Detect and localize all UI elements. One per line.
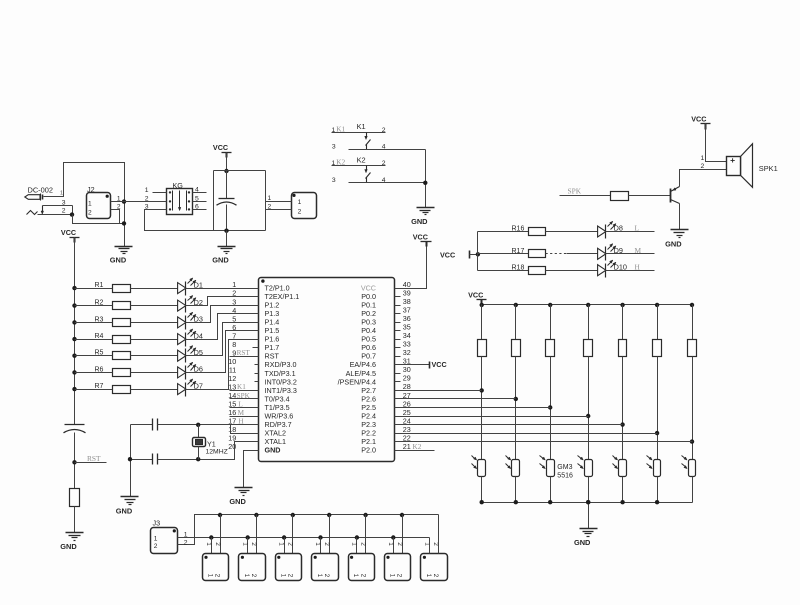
wire to ground <box>226 231 228 247</box>
wire U1 pin 17 net stub <box>230 424 259 426</box>
LED D5 <box>178 346 203 363</box>
wire SPK1 pin 2 to Q1 <box>680 170 727 187</box>
svg-text:GND: GND <box>60 542 77 551</box>
photoresistor LDR6 <box>647 456 661 477</box>
svg-text:37: 37 <box>403 305 411 314</box>
svg-text:1: 1 <box>389 574 396 578</box>
KG pin 4 stub <box>193 192 207 194</box>
svg-text:40: 40 <box>403 280 411 289</box>
wire rail to R18 <box>478 270 529 272</box>
junction top rail col2 <box>514 303 518 307</box>
wire left VCC rail <box>74 238 76 425</box>
wire U1 pin 27 to col2 <box>395 398 516 400</box>
wire U1 pin 14 net stub <box>230 398 259 400</box>
svg-text:1: 1 <box>88 200 92 207</box>
U1 left pin names <box>265 284 300 455</box>
resistor R6 <box>95 366 131 376</box>
junction K2 pin4 node <box>423 181 427 185</box>
junction rail node R3 <box>72 320 76 324</box>
transistor Q1 <box>671 187 680 204</box>
wire U1 pin 20 to ground <box>244 451 259 488</box>
wire U1 pin 29 stub <box>395 381 401 383</box>
svg-text:3: 3 <box>332 144 336 151</box>
svg-text:2: 2 <box>323 574 330 578</box>
junction cap bottom node <box>224 229 228 233</box>
wire rail A end corner <box>438 515 440 554</box>
svg-text:4: 4 <box>195 187 199 194</box>
junction rail A module1 <box>218 513 222 517</box>
wire K1/K2 common to ground <box>425 150 427 208</box>
photoresistor LDR7 <box>682 456 696 477</box>
junction rail B module3 <box>282 535 286 539</box>
junction rail node R5 <box>72 354 76 358</box>
svg-text:1: 1 <box>205 542 212 546</box>
wire U1 pin 11 stub <box>255 373 259 375</box>
wire rail to R5 <box>75 355 113 357</box>
power flag VCC left rail <box>61 228 80 242</box>
svg-text:24: 24 <box>403 416 411 425</box>
svg-text:2: 2 <box>701 163 705 170</box>
wire R4 to D4 <box>131 339 178 341</box>
capacitor C1 (polarized) <box>217 171 237 231</box>
net label SPK stub <box>560 187 611 196</box>
wire module4 pin1 <box>320 538 322 554</box>
resistor R8 (reset pulldown) <box>70 489 80 507</box>
svg-text:1: 1 <box>298 199 302 206</box>
module M2 (2-pin socket) <box>239 542 266 580</box>
wire rail to R1 <box>75 288 113 290</box>
ground under K1 K2 <box>411 208 434 227</box>
svg-text:20: 20 <box>228 442 236 451</box>
wire D2 to U1 pin 2 <box>186 297 259 306</box>
wire module4 pin2 <box>329 515 331 554</box>
resistor R9 (col1) <box>478 305 487 357</box>
svg-text:2: 2 <box>117 203 121 210</box>
junction col3 tap node <box>548 405 552 409</box>
U1 left pin numbers <box>228 280 236 451</box>
wire U1 pin 15 net stub <box>230 407 259 409</box>
wire U1 pin 39 stub <box>395 296 401 298</box>
wire module6 pin1 <box>393 538 395 554</box>
power flag VCC at U1 pin 40 <box>413 232 432 246</box>
junction bottom rail col6 <box>655 500 659 504</box>
svg-text:GND: GND <box>411 217 428 226</box>
svg-text:1: 1 <box>268 195 272 202</box>
pushbutton K2 <box>332 155 426 184</box>
junction col7 tap node <box>690 439 694 443</box>
svg-text:2: 2 <box>359 574 366 578</box>
svg-text:D7: D7 <box>194 381 203 390</box>
svg-text:1: 1 <box>184 532 188 539</box>
junction VCC rail node <box>224 169 228 173</box>
wire R17 to D9 <box>546 253 567 255</box>
junction rail A module4 <box>327 513 331 517</box>
wire U1 pin 31 to VCC flag <box>395 364 430 366</box>
wire U1 pin 36 stub <box>395 322 401 324</box>
svg-text:R16: R16 <box>512 226 525 233</box>
ground bottom left <box>60 533 83 552</box>
svg-text:RST: RST <box>237 349 251 357</box>
junction col4 tap node <box>586 414 590 418</box>
ground U1 pin 20 <box>229 488 252 507</box>
capacitor C2 (reset, polarized) <box>64 425 86 433</box>
svg-text:RST: RST <box>87 454 101 463</box>
wire module7 pin2 <box>438 515 440 554</box>
wire U1 pin 33 stub <box>395 347 401 349</box>
svg-text:2: 2 <box>214 574 221 578</box>
resistor R12 (col4) <box>584 305 593 357</box>
wire module2 pin2 <box>256 515 258 554</box>
svg-text:36: 36 <box>403 314 411 323</box>
wire rail to R16 <box>478 231 529 233</box>
resistor R19 (base) <box>611 192 629 201</box>
svg-text:1: 1 <box>387 542 394 546</box>
svg-text:2: 2 <box>214 542 221 546</box>
wire U1 pin 40 to VCC <box>395 242 427 289</box>
wire R7 to D7 <box>131 389 178 391</box>
wire rail to R3 <box>75 322 113 324</box>
junction bottom rail col4 <box>586 500 590 504</box>
module M5 (2-pin socket) <box>349 542 375 580</box>
resistor R16 <box>512 226 546 236</box>
KG pin 5 stub <box>193 201 207 203</box>
wire LDR6 to bottom rail <box>657 477 659 503</box>
LED D2 <box>178 295 203 312</box>
ground under Q1 <box>665 230 688 249</box>
ground array <box>574 529 598 548</box>
wire CON2 pin 1 <box>266 201 292 203</box>
wire U1 pin 9 net stub <box>230 356 259 358</box>
svg-text:1: 1 <box>701 155 705 162</box>
module M7 (2-pin socket) <box>421 542 448 580</box>
svg-text:J3: J3 <box>153 519 161 528</box>
wire U1 pin 32 stub <box>395 356 401 358</box>
wire J2 pin 2 <box>111 210 120 224</box>
wire cap loop right side <box>265 171 267 231</box>
junction bottom rail col1 <box>480 500 484 504</box>
wire R16-R18 left rail <box>477 232 479 271</box>
svg-text:P2.0: P2.0 <box>361 446 376 455</box>
svg-text:H: H <box>635 262 641 271</box>
svg-text:21: 21 <box>403 442 411 451</box>
wire LDR7 to bottom rail <box>692 477 694 503</box>
junction J2 pin2 node <box>122 221 126 225</box>
svg-text:1: 1 <box>145 187 149 194</box>
resistor R3 <box>95 316 131 326</box>
svg-text:28: 28 <box>403 382 411 391</box>
resistor R15 (col7) <box>688 305 697 357</box>
svg-text:1: 1 <box>207 574 214 578</box>
svg-text:R18: R18 <box>512 264 525 271</box>
svg-text:VCC: VCC <box>432 360 447 369</box>
svg-text:38: 38 <box>403 297 411 306</box>
junction col6 tap node <box>655 431 659 435</box>
resistor R10 (col2) <box>512 305 521 357</box>
svg-text:2: 2 <box>396 574 403 578</box>
junction rail A module2 <box>254 513 258 517</box>
svg-text:DC-002: DC-002 <box>28 186 53 195</box>
wire C3 to U1 pin 18 <box>158 425 259 434</box>
junction col2 tap node <box>514 397 518 401</box>
svg-text:2: 2 <box>396 542 403 546</box>
svg-text:1: 1 <box>117 195 121 202</box>
svg-text:35: 35 <box>403 323 411 332</box>
junction bottom rail col3 <box>548 500 552 504</box>
svg-text:1: 1 <box>154 535 158 542</box>
junction bottom rail col2 <box>514 500 518 504</box>
wire module2 pin1 <box>247 538 249 554</box>
resistor R5 <box>95 350 131 360</box>
junction rail B module1 <box>209 535 213 539</box>
svg-text:2: 2 <box>287 574 294 578</box>
wire module1 pin1 <box>211 538 213 554</box>
svg-text:GND: GND <box>116 507 133 516</box>
svg-text:33: 33 <box>403 340 411 349</box>
svg-text:SPK: SPK <box>568 187 582 196</box>
svg-text:GND: GND <box>229 497 246 506</box>
svg-text:D4: D4 <box>194 331 203 340</box>
junction rail B module6 <box>391 535 395 539</box>
photoresistor LDR5 <box>613 456 627 477</box>
svg-text:1: 1 <box>278 542 285 546</box>
junction J2 pin1 node <box>122 199 126 203</box>
junction rail node R2 <box>72 303 76 307</box>
svg-text:1: 1 <box>425 574 432 578</box>
wire U1 pin 22 to col7 <box>395 441 693 443</box>
svg-text:Y1: Y1 <box>207 439 216 448</box>
wire U1 pin 26 to col3 <box>395 407 551 409</box>
svg-text:VCC: VCC <box>61 228 76 237</box>
wire array top rail <box>482 304 693 306</box>
wire rail to R6 <box>75 372 113 374</box>
wire rail B end corner <box>429 538 431 554</box>
pushbutton K1 <box>332 122 426 151</box>
svg-text:GND: GND <box>265 446 281 455</box>
LED D7 <box>178 379 203 397</box>
wire U1 pin 24 to col5 <box>395 424 623 426</box>
wire cap loop bottom rail <box>145 230 266 232</box>
svg-text:26: 26 <box>403 399 411 408</box>
wire cap loop top rail <box>214 170 266 172</box>
junction rail A module5 <box>363 513 367 517</box>
wire R6 to D6 <box>131 372 178 374</box>
junction bottom rail col5 <box>620 500 624 504</box>
LED D6 <box>178 362 203 379</box>
svg-text:2: 2 <box>323 542 330 546</box>
svg-text:25: 25 <box>403 408 411 417</box>
svg-text:1: 1 <box>316 574 323 578</box>
wire D4 to U1 pin 4 <box>186 314 259 340</box>
U1 right pin numbers <box>403 280 411 451</box>
resistor R18 <box>512 264 546 274</box>
svg-text:2: 2 <box>268 204 272 211</box>
headphone jack switch symbol <box>27 200 73 215</box>
wire J3 pin 1 (rail B) <box>178 537 430 539</box>
net label RST stub <box>75 454 107 463</box>
wire LDR5 to bottom rail <box>622 477 624 503</box>
resistor R11 (col3) <box>546 305 555 357</box>
junction top rail col7 <box>690 303 694 307</box>
resistor R2 <box>95 300 131 310</box>
svg-text:23: 23 <box>403 425 411 434</box>
wire caps common to ground <box>130 425 132 497</box>
svg-text:GM3: GM3 <box>557 464 572 471</box>
wire VCC stem to rail <box>226 153 228 171</box>
module M3 (2-pin socket) <box>276 542 302 580</box>
svg-text:M: M <box>635 246 642 255</box>
svg-text:2: 2 <box>298 209 302 216</box>
svg-text:L: L <box>635 224 640 233</box>
connector CON2 (2-pin) <box>292 193 317 219</box>
svg-text:1: 1 <box>314 542 321 546</box>
wire U1 pin 23 to col6 <box>395 433 658 435</box>
junction cap-gnd node <box>128 457 132 461</box>
junction rail A module3 <box>291 513 295 517</box>
wire R16 to D8 <box>546 231 598 233</box>
wire cap to RST node <box>74 433 76 489</box>
wire col6 middle <box>657 357 659 460</box>
wire U1 pin 13 net stub <box>230 390 259 392</box>
resistor R14 (col6) <box>653 305 662 357</box>
svg-text:39: 39 <box>403 288 411 297</box>
wire U1 pin 34 stub <box>395 339 401 341</box>
svg-text:2: 2 <box>287 542 294 546</box>
wire cap loop left side <box>213 171 215 231</box>
capacitor C4 <box>130 454 158 465</box>
svg-text:VCC: VCC <box>213 143 228 152</box>
wire array bottom rail <box>482 502 693 504</box>
wire array mid to ground <box>588 503 590 529</box>
wire R8 to ground <box>74 507 76 533</box>
svg-text:2: 2 <box>88 210 92 217</box>
wire J2 pin 1 <box>111 201 125 203</box>
crystal Y1 12MHZ <box>193 425 228 460</box>
svg-text:VCC: VCC <box>691 115 706 124</box>
photoresistor LDR4 <box>578 456 593 477</box>
wire module1 pin2 <box>220 515 222 554</box>
wire R2 to D2 <box>131 305 178 307</box>
wire rail to R17 <box>478 253 529 255</box>
wire U1 pin 12 stub <box>255 381 259 383</box>
svg-text:5: 5 <box>195 196 199 203</box>
capacitor C3 <box>131 419 158 431</box>
wire Q1 emitter to ground <box>679 204 681 230</box>
photoresistor LDR1 <box>472 456 486 477</box>
svg-text:SPK1: SPK1 <box>759 164 778 173</box>
LED D3 <box>178 312 203 329</box>
svg-text:2: 2 <box>250 574 257 578</box>
wire U1 pin 28 to col1 <box>395 390 482 392</box>
net label M / wire D9 out <box>606 246 655 255</box>
wire rail to R4 <box>75 339 113 341</box>
wire module7 pin1 <box>429 538 431 554</box>
wire U1 pin 35 stub <box>395 330 401 332</box>
module M1 (2-pin socket) <box>203 542 229 580</box>
wire U1 pin 8 stub <box>253 347 259 349</box>
switch KG <box>167 181 193 215</box>
wire J1 pin1 to top rail <box>44 163 125 247</box>
photoresistor LDR3 <box>540 456 555 477</box>
wire R18 to D10 <box>546 270 598 272</box>
wire U1 pin 38 stub <box>395 305 401 307</box>
junction rail node R7 <box>72 387 76 391</box>
wire jack to GND rail <box>73 215 125 224</box>
wire rail to R2 <box>75 305 113 307</box>
wire module6 pin2 <box>402 515 404 554</box>
junction rail B module2 <box>246 535 250 539</box>
power flag VCC at pin 31 <box>430 360 447 369</box>
DC power jack J1 DC-002 <box>25 186 53 201</box>
wire col4 middle <box>588 357 590 460</box>
resistor R17 <box>512 248 546 258</box>
svg-text:GND: GND <box>574 538 591 547</box>
svg-text:K2: K2 <box>357 155 366 164</box>
resistor R4 <box>95 333 131 343</box>
svg-text:1: 1 <box>352 574 359 578</box>
resistor R13 (col5) <box>619 305 627 357</box>
wire LDR2 to bottom rail <box>515 477 517 503</box>
wire col3 middle <box>550 357 552 460</box>
wire U1 pin 10 stub <box>255 364 259 366</box>
wire J3 pin 2 to rail A <box>178 515 439 545</box>
wire C4 to U1 pin 19 <box>158 442 259 460</box>
junction crystal top node <box>196 423 200 427</box>
wire R1 to D1 <box>131 288 178 290</box>
svg-text:2: 2 <box>184 540 188 547</box>
speaker SPK1 <box>727 144 778 188</box>
svg-text:R17: R17 <box>512 248 525 255</box>
LED D4 <box>178 329 203 347</box>
junction rail B module5 <box>355 535 359 539</box>
svg-text:30: 30 <box>403 365 411 374</box>
wire rail to R7 <box>75 389 113 391</box>
KG pin 6 stub <box>193 209 207 211</box>
power flag VCC above filter cap <box>213 143 232 157</box>
svg-text:29: 29 <box>403 374 411 383</box>
ground under C1 <box>212 247 235 265</box>
svg-text:2: 2 <box>432 574 439 578</box>
module M4 (2-pin socket) <box>312 542 339 580</box>
wire U1 pin 30 stub <box>395 373 401 375</box>
ground crystal caps <box>116 497 139 516</box>
ground under J2 <box>110 247 133 265</box>
LED D9 <box>598 244 623 261</box>
wire D7 to U1 pin 7 <box>186 340 259 390</box>
connector J3 <box>151 519 178 554</box>
junction R17 rail node <box>476 252 480 256</box>
wire module3 pin1 <box>284 538 286 554</box>
svg-text:VCC: VCC <box>440 250 455 259</box>
resistor R1 <box>95 282 131 292</box>
svg-text:+: + <box>730 155 735 165</box>
junction crystal bottom node <box>196 457 200 461</box>
svg-text:1: 1 <box>243 574 250 578</box>
wire U1 pin 37 stub <box>395 313 401 315</box>
svg-text:32: 32 <box>403 348 411 357</box>
junction RST node <box>72 460 76 464</box>
svg-text:2: 2 <box>250 542 257 546</box>
wire U1 pin 25 to col4 <box>395 416 589 418</box>
svg-text:3: 3 <box>332 177 336 184</box>
svg-text:2: 2 <box>145 196 149 203</box>
wire KG pin 3 to bottom rail <box>145 210 214 231</box>
junction top rail col3 <box>548 303 552 307</box>
resistor R7 <box>95 383 131 393</box>
wire LDR1 to bottom rail <box>481 477 483 503</box>
net label H / wire D10 out <box>606 262 655 271</box>
wire LDR3 to bottom rail <box>550 477 552 503</box>
junction rail node R1 <box>72 286 76 290</box>
